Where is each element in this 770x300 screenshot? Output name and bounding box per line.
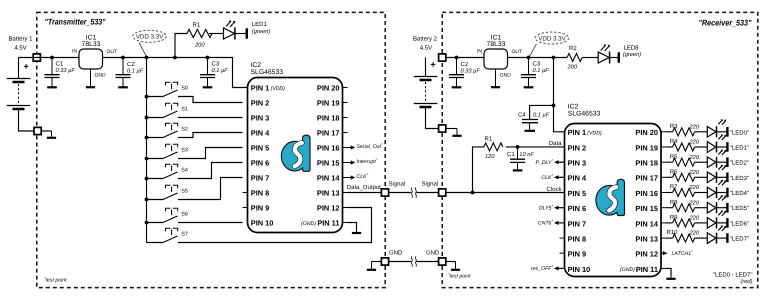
svg-text:R1: R1 [193,22,201,29]
svg-text:220: 220 [689,185,700,191]
wire pin20 to R3 [666,131,673,133]
wire pin19 to R4 [666,146,673,148]
resistor R5 220 [673,158,695,166]
svg-text:0.1 µF: 0.1 µF [127,68,144,74]
terminal LED5 [726,203,728,213]
svg-text:PIN 10: PIN 10 [251,219,274,228]
resistor R1 200 (transmitter) [187,30,212,38]
pin stub PIN 11 (receiver right) [661,267,666,269]
wire R2 to LED8 [582,57,598,59]
wire Signal to Clock PIN 5 [446,192,564,194]
LED LED7 red [707,225,726,243]
svg-text:IN: IN [477,49,482,55]
LED LED3 red [707,165,726,183]
svg-text:GND: GND [426,249,440,256]
capacitor C4 (receiver) [522,120,538,131]
pushbutton switch S2 [163,123,178,137]
svg-text:4.5V: 4.5V [420,45,432,52]
resistor R10 220 [673,234,695,242]
wire VDD to R1 [175,34,187,58]
svg-text:PIN 15: PIN 15 [317,159,340,168]
pin stub PIN 18 (receiver right) [661,161,666,163]
pin stub PIN 20 (receiver right) [661,131,666,133]
wire Signal between modules [389,192,438,194]
svg-text:220: 220 [689,216,700,222]
svg-text:DLY5*: DLY5* [539,203,554,211]
line break Signal [411,187,417,197]
pin stub PIN 16 (right) [343,147,348,149]
pin stub PIN 16 (receiver right) [661,192,666,194]
resistor R7 220 [673,189,695,197]
junction C1/rail [50,56,54,60]
wire bus to S6 [147,222,164,224]
wire VDD to receiver PIN 1 [554,58,565,132]
wire bus to S4 [147,178,164,180]
wire gnd to test point [372,261,382,263]
LED LED1 red [707,134,726,152]
svg-text:(VDD): (VDD) [271,86,286,92]
svg-text:78L33: 78L33 [487,41,506,48]
terminal LED4 [726,188,728,198]
svg-text:SLG46533: SLG46533 [251,69,284,76]
svg-text:C4: C4 [518,111,526,118]
pin stub PIN 18 (right) [343,117,348,119]
svg-text:PIN 7: PIN 7 [251,174,269,183]
svg-text:PIN 4: PIN 4 [251,129,270,138]
svg-text:Interrupt*: Interrupt* [357,157,378,165]
svg-text:C2: C2 [461,61,469,68]
svg-text:"LED6": "LED6" [730,220,749,227]
svg-text:(GND): (GND) [301,221,316,227]
svg-text:OUT: OUT [512,49,523,55]
wire to ground b2 [446,128,457,130]
svg-text:PIN 13: PIN 13 [635,235,658,244]
svg-text:Serial_Out*: Serial_Out* [357,142,384,150]
wire R10 to LED7 [695,237,708,239]
svg-text:Signal: Signal [389,180,406,187]
svg-text:220: 220 [689,140,700,146]
junction bus S1 [145,116,149,120]
junction bus S4 [145,177,149,181]
svg-text:R10: R10 [666,229,678,236]
pushbutton switch S6 [163,208,178,222]
svg-text:R2: R2 [569,45,577,52]
svg-text:GND: GND [389,249,403,256]
wire LED1 to terminal [235,33,246,35]
wire rail IC1 out to R2 [508,57,568,59]
svg-text:PIN 19: PIN 19 [635,143,658,152]
arrow LATCH1 PIN 12 [661,251,668,255]
terminal LED2 [726,157,728,167]
pushbutton switch S3 [163,144,178,158]
GreenPAK IC U2: SLG46533 (receiver) [565,124,662,277]
junction switch bus / VDD rail [145,56,149,60]
svg-text:PIN 6: PIN 6 [251,159,269,168]
wire R1 to PIN 2 [506,146,565,148]
arrow CLK PIN 14 [348,175,356,179]
receiver dashed enclosure [442,12,758,287]
svg-text:PIN 4: PIN 4 [568,174,587,183]
wire LED4 to terminal [717,192,727,194]
svg-text:S2: S2 [181,126,188,132]
junction C2/rail [121,56,125,60]
pin stub PIN 14 (receiver right) [661,222,666,224]
arrow CNT6 PIN 7 [554,221,565,225]
ground PIN 11 [352,230,361,234]
svg-text:GND: GND [94,72,106,78]
capacitor C2 (transmitter) [116,58,131,88]
svg-text:PIN 12: PIN 12 [317,204,340,213]
pin stub PIN 13 (right) [343,192,348,194]
svg-text:PIN 8: PIN 8 [251,189,269,198]
test point GND (receiver) [439,258,446,265]
svg-text:220: 220 [689,124,700,130]
wire R8 to LED5 [695,207,708,209]
svg-text:(green): (green) [252,28,270,35]
svg-text:PIN 9: PIN 9 [251,204,269,213]
junction bus S2 [145,136,149,140]
svg-text:PIN 16: PIN 16 [317,144,340,153]
wire S1 to PIN 3 [178,117,243,119]
wire C4 branch [530,105,554,119]
svg-text:C3: C3 [212,60,220,67]
wire rail b2 to IC1 [446,57,484,59]
pin stub PIN 17 (right) [343,132,348,134]
wire PIN 11 recv to ground [666,268,671,276]
wire up to R1r [473,147,484,193]
wire S0 to PIN 2 [178,97,243,103]
test point GND (transmitter) [381,258,388,265]
GreenPAK IC U2: SLG46533 (transmitter) [248,78,343,233]
wire S7 to PIN 12 [178,208,372,243]
svg-text:PIN 16: PIN 16 [635,189,658,198]
svg-text:PIN 10: PIN 10 [568,265,591,274]
svg-text:C2: C2 [127,61,135,68]
wire battery1 negative to test point [19,109,38,131]
wire LED0 to terminal [717,131,727,133]
svg-text:PIN 7: PIN 7 [568,219,586,228]
wire LED6 to terminal [717,222,727,224]
svg-text:PIN 18: PIN 18 [317,114,340,123]
wire VDD rail to PIN 1 [103,58,248,88]
svg-text:0.33 µF: 0.33 µF [56,68,76,74]
wire pin18 to R5 [666,161,673,163]
svg-text:PIN 2: PIN 2 [251,99,269,108]
pin stub PIN 17 (receiver right) [661,176,666,178]
junction C1r [516,145,520,149]
pin stub PIN 19 (right) [343,102,348,104]
capacitor C1 (transmitter) [45,58,60,88]
LED LED4 red [707,180,726,198]
resistor R2 200 (receiver) [567,54,582,62]
battery plus sign [24,64,29,69]
svg-text:VDD 3.3V: VDD 3.3V [136,34,164,41]
wire R4 to LED1 [695,146,708,148]
ground IC1 receiver [491,69,500,87]
svg-text:(GND): (GND) [620,267,635,273]
svg-text:PIN 12: PIN 12 [635,250,658,259]
svg-text:(VDD): (VDD) [587,130,602,136]
ground test point (receiver) [451,262,460,270]
wire R3 to LED0 [695,131,708,133]
pin stub PIN 12 (receiver right) [661,252,666,254]
svg-text:*test point: *test point [44,276,67,284]
wire R1 to LED1 [209,33,224,35]
wire PIN 13 to Signal test point [348,192,382,194]
junction bus S5 [145,198,149,202]
wire pin16 to R7 [666,192,673,194]
svg-text:PIN 17: PIN 17 [635,174,658,183]
junction bus S3 [145,157,149,161]
svg-text:0.1 µF: 0.1 µF [533,112,550,118]
svg-text:220: 220 [689,231,700,237]
svg-text:PIN 20: PIN 20 [317,84,340,93]
test point battery2 - [439,125,446,132]
wire S5 to PIN 7 [178,178,243,200]
LED LED2 red [707,150,726,168]
svg-text:220: 220 [689,200,700,206]
svg-text:PIN 1: PIN 1 [568,128,586,137]
pin stub PIN 12 (right) [343,207,348,209]
wire LED1 to terminal [717,146,727,148]
arrow CLK PIN 4 [554,175,565,179]
pushbutton switch S5 [163,185,178,199]
ground battery2 [452,129,461,136]
wire bus to S7 [147,242,164,244]
wire bus to S2 [147,137,164,139]
svg-text:78L33: 78L33 [82,41,101,48]
wire LED7 to terminal [717,237,727,239]
wire R9 to LED6 [695,222,708,224]
wire to ground [42,130,52,132]
Dialog logo (transmitter) [281,135,310,171]
test point Signal (receiver) [439,189,446,196]
wire bus to S1 [147,117,164,119]
svg-text:S4: S4 [181,167,188,173]
pin stub PIN 10 (receiver) [560,267,565,269]
wire R6 to LED3 [695,176,708,178]
wire pin17 to R6 [666,176,673,178]
terminal LED1 cathode [246,28,248,38]
resistor R3 220 [673,128,695,136]
test point battery1 - [34,127,41,134]
battery B1 [7,58,31,110]
LED LED5 red [707,195,726,213]
regulator IC1 78L33 (receiver) [484,49,508,69]
svg-text:"LED3": "LED3" [730,175,749,182]
wire pin15 to R8 [666,207,673,209]
svg-text:SLG46533: SLG46533 [568,110,601,117]
battery B2 [414,58,438,108]
svg-text:res_OFF*: res_OFF* [531,264,553,272]
svg-text:S1: S1 [181,106,188,112]
svg-text:220: 220 [689,170,700,176]
terminal LED1 [726,142,728,152]
svg-text:*test point: *test point [448,272,471,280]
test point Signal (transmitter) [381,189,388,196]
svg-text:CNT6*: CNT6* [538,219,554,227]
pin stub PIN 11 (right) [343,222,348,224]
resistor R1 120 (receiver) [484,143,503,151]
svg-text:200: 200 [194,43,205,49]
svg-text:C1: C1 [56,60,64,67]
junction Signal/Data [471,191,475,195]
pin stub PIN 15 (receiver right) [661,207,666,209]
svg-text:S7: S7 [181,231,188,237]
wire S2 to PIN 4 [178,133,243,138]
resistor R9 220 [673,219,695,227]
wire bus to S5 [147,199,164,201]
svg-text:PIN 5: PIN 5 [251,144,269,153]
wire bus to S0 [147,96,164,98]
svg-text:PIN 17: PIN 17 [317,129,340,138]
svg-text:PIN 13: PIN 13 [317,189,340,198]
svg-text:"LED2": "LED2" [730,160,749,167]
wire battery2 negative to test point [426,107,439,129]
ground battery1 [47,131,56,138]
svg-text:(green): (green) [623,51,641,58]
svg-text:GND: GND [500,72,512,78]
svg-text:220: 220 [689,155,700,161]
svg-text:PIN 11: PIN 11 [636,265,658,274]
resistor R8 220 [673,204,695,212]
svg-text:PIN 14: PIN 14 [635,219,658,228]
svg-text:Data: Data [549,140,562,147]
pushbutton switch S1 [163,103,178,117]
svg-text:PIN 3: PIN 3 [568,159,586,168]
wire S6 to PIN 10 [178,222,243,224]
svg-text:Battery 1: Battery 1 [8,36,33,43]
svg-text:4.5V: 4.5V [14,45,26,52]
svg-text:S5: S5 [181,188,188,194]
svg-text:S0: S0 [181,85,188,91]
svg-text:"LED4": "LED4" [730,190,749,197]
ground PIN 11 receiver [666,277,675,279]
junction PIN1 branch [552,56,556,60]
LED LED0 red [707,119,726,137]
svg-text:"LED0": "LED0" [730,129,749,136]
pushbutton switch S7 [163,228,178,242]
pin stub PIN 6 (receiver) [560,207,565,209]
arrow res_OFF PIN 10 [554,266,565,270]
wire bus to S3 [147,158,164,160]
pin stub PIN 15 (right) [343,162,348,164]
svg-text:PIN 6: PIN 6 [568,204,586,213]
svg-text:PIN 8: PIN 8 [568,235,586,244]
svg-text:"LED7": "LED7" [730,236,749,243]
svg-text:PIN 19: PIN 19 [317,99,340,108]
line break GND [411,256,417,266]
pin stub PIN 7 (receiver) [560,222,565,224]
terminal LED7 [726,233,728,243]
svg-text:"LED0 - LED7": "LED0 - LED7" [713,272,753,279]
junction C3/rail [206,56,210,60]
arrow DLY5 PIN 6 [554,206,565,210]
transmitter dashed enclosure [37,12,385,287]
svg-text:PIN 14: PIN 14 [317,174,340,183]
svg-text:LED8: LED8 [624,45,640,52]
pin stub PIN 8 (receiver) [560,237,565,239]
svg-text:S3: S3 [181,147,188,153]
LED LED8 green [598,44,610,63]
junction R1 branch [173,56,177,60]
svg-text:OUT: OUT [107,49,118,55]
wire PIN 11 to ground [348,223,357,230]
pin stub PIN 3 (receiver) [560,161,565,163]
wire S3 to PIN 5 [178,148,243,159]
terminal LED0 [726,127,728,137]
svg-text:PIN 11: PIN 11 [317,219,339,228]
wire pin13 to R10 [666,237,673,239]
wire GND receiver stub [446,261,455,263]
svg-text:PIN 3: PIN 3 [251,114,269,123]
pin stub PIN 9 [243,207,248,209]
resistor R6 220 [673,173,695,181]
junction C2r/rail [455,56,459,60]
pushbutton switch S0 [163,82,178,96]
arrow Interrupt PIN 15 [348,160,356,164]
svg-text:(red): (red) [740,278,752,285]
junction bus S6 [145,221,149,225]
svg-text:Data_Output: Data_Output [347,184,381,191]
arrow Serial_Out PIN 16 [348,145,356,149]
wire GND between modules [389,261,438,263]
svg-text:"LED1": "LED1" [730,145,749,152]
pin stub PIN 4 (receiver) [560,176,565,178]
wire rail battery to IC1 IN [19,57,80,59]
pin stub PIN 9 (receiver) [560,252,565,254]
wire R7 to LED4 [695,192,708,194]
svg-text:S6: S6 [181,211,188,217]
svg-text:"Receiver_533": "Receiver_533" [699,19,752,28]
LED LED6 red [707,210,726,228]
svg-text:10 nF: 10 nF [519,152,534,158]
pin stub PIN 20 (right) [343,87,348,89]
svg-text:LATCH1*: LATCH1* [672,249,694,257]
wire R5 to LED2 [695,161,708,163]
svg-text:0.1 µF: 0.1 µF [533,68,550,74]
net label VDD 3.3V (transmitter) [133,30,167,42]
svg-text:PIN 9: PIN 9 [568,250,586,259]
VDD callout leader [139,43,146,57]
svg-text:"LED5": "LED5" [730,205,749,212]
Dialog logo (receiver) [596,179,625,215]
VDD callout leader (receiver) [530,44,537,56]
wire LED5 to terminal [717,207,727,209]
pin stub PIN 19 (receiver right) [661,146,666,148]
LED LED1 green [224,20,236,39]
pin stub PIN 14 (right) [343,177,348,179]
capacitor C3 (transmitter) [200,58,215,88]
net label VDD 3.3V (receiver) [535,32,569,44]
svg-text:C1: C1 [507,151,515,158]
pin stub PIN 13 (receiver right) [661,237,666,239]
terminal LED8 cathode [618,52,620,62]
svg-text:VDD 3.3V: VDD 3.3V [538,35,566,42]
wire pin14 to R9 [666,222,673,224]
svg-text:PIN 5: PIN 5 [568,189,586,198]
terminal LED6 [726,218,728,228]
arrow P_DLY PIN 3 [554,160,565,164]
svg-text:"Transmitter_533": "Transmitter_533" [45,18,106,27]
ground IC1 [86,69,95,87]
terminal LED3 [726,173,728,183]
svg-text:PIN 18: PIN 18 [635,159,658,168]
junction C4 branch [552,104,556,108]
pin stub PIN 8 [243,192,248,194]
svg-text:C3: C3 [533,60,541,67]
capacitor C1 10nF (receiver) [510,147,525,171]
